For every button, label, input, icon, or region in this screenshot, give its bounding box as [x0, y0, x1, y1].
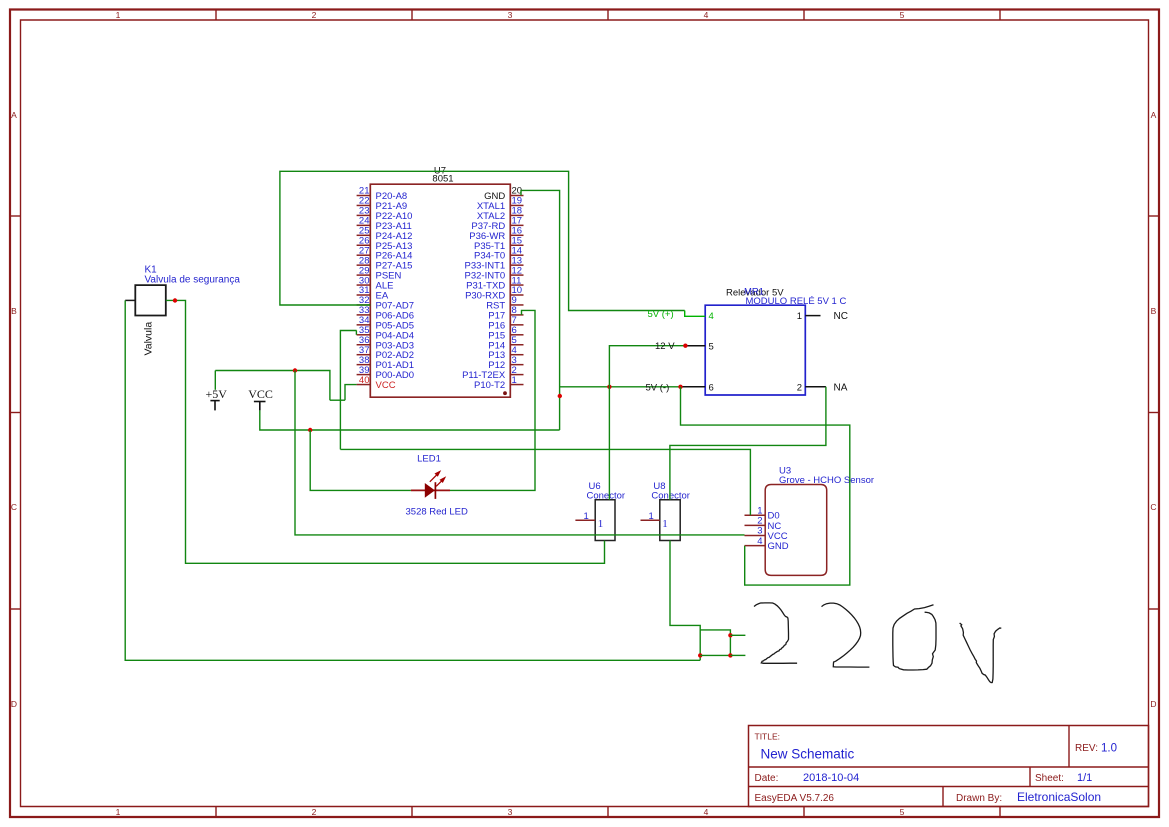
U7 pin 5 P14: [510, 344, 523, 346]
wire 12V from relay pin 5 to U6 top: [609, 346, 686, 500]
svg-text:5: 5: [900, 10, 905, 20]
svg-text:4: 4: [757, 536, 762, 547]
wire U8 bottom to 220V node: [670, 541, 700, 661]
U7 pin 33 P06-AD6: [357, 314, 371, 316]
U3 pin 2 NC: [745, 524, 766, 526]
U7 pin 28 P27-A15: [357, 264, 371, 266]
svg-text:+5V: +5V: [206, 387, 228, 401]
wire VCC flag to GND rail: [260, 410, 560, 430]
U3 pin 1 D0: [745, 514, 766, 516]
svg-text:1: 1: [649, 511, 654, 522]
node relay pin 5: [683, 344, 687, 348]
U7 pin 24 P23-A11: [357, 224, 371, 226]
U7 pin 13 P33-INT1: [510, 264, 523, 266]
svg-text:NA: NA: [834, 382, 848, 393]
wire U7 pin35 branch: [340, 331, 356, 401]
svg-text:12 V: 12 V: [655, 341, 675, 352]
U7 pin 37 P02-AD2: [357, 354, 371, 356]
U7 pin 1 P10-T2: [510, 384, 523, 386]
svg-text:A: A: [11, 110, 17, 120]
svg-text:TITLE:: TITLE:: [755, 732, 781, 742]
node VCC rail to LED: [308, 428, 312, 432]
svg-text:Grove - HCHO Sensor: Grove - HCHO Sensor: [779, 475, 874, 486]
svg-text:6: 6: [709, 382, 714, 393]
svg-text:1: 1: [116, 807, 121, 817]
+5V power flag: [214, 371, 216, 390]
node 12V crossing: [607, 385, 611, 389]
U6 pin 1: [575, 519, 595, 521]
U7 pin 32 P07-AD7: [357, 304, 371, 306]
svg-text:B: B: [1151, 306, 1157, 316]
wire 220V stub bottom: [730, 654, 745, 656]
wire U3 pin4 GND loop to 5V(-): [681, 387, 850, 585]
svg-text:LED1: LED1: [417, 454, 441, 465]
U7 pin 4 P13: [510, 354, 523, 356]
handwritten 220v annotation: digit 2: [822, 603, 870, 667]
svg-text:1/1: 1/1: [1077, 772, 1092, 784]
svg-text:2: 2: [312, 807, 317, 817]
relay module MR1 MODULO RELE 5V 1 C: [705, 305, 805, 395]
svg-text:1: 1: [584, 511, 589, 522]
svg-text:5: 5: [709, 341, 714, 352]
wire long rail to U3 pin1 D0: [340, 449, 750, 515]
node 220V stub top: [728, 633, 732, 637]
U7 pin 38 P01-AD1: [357, 364, 371, 366]
svg-text:B: B: [11, 306, 17, 316]
U8 pin 1: [641, 519, 660, 521]
node 220V left: [698, 653, 702, 657]
wire 220V stub top: [730, 634, 745, 636]
U7 pin 22 P21-A9: [357, 204, 371, 206]
relay K1 Valvula de seguranca: [135, 285, 166, 315]
svg-text:A: A: [1151, 110, 1157, 120]
svg-text:1: 1: [116, 10, 121, 20]
svg-text:C: C: [11, 502, 17, 512]
U7 pin 30 ALE: [357, 284, 371, 286]
svg-text:3: 3: [508, 807, 513, 817]
svg-text:1: 1: [797, 311, 802, 322]
svg-text:4: 4: [704, 807, 709, 817]
svg-text:NC: NC: [834, 311, 848, 322]
wire U7 pin40 VCC branch: [345, 385, 357, 401]
wire LED anode branch: [310, 430, 411, 490]
node 5V(-) branch: [678, 385, 682, 389]
svg-text:D: D: [1150, 699, 1156, 709]
svg-text:1.0: 1.0: [1101, 743, 1117, 755]
node K1 right pin: [173, 298, 177, 302]
U7 pin 16 P36-WR: [510, 234, 523, 236]
wire down to sensor row: [339, 400, 341, 449]
U3 pin 4 GND: [745, 545, 766, 547]
svg-text:C: C: [1150, 502, 1156, 512]
svg-text:40: 40: [359, 375, 370, 386]
svg-text:1: 1: [662, 518, 668, 530]
svg-text:MODULO RELÉ 5V 1 C: MODULO RELÉ 5V 1 C: [746, 296, 847, 307]
U7 pin 3 P12: [510, 364, 523, 366]
U7 pin 2 P11-T2EX: [510, 374, 523, 376]
node +5V rail branch: [293, 368, 297, 372]
title block: [749, 726, 1149, 807]
svg-text:2: 2: [797, 382, 802, 393]
svg-text:3: 3: [508, 10, 513, 20]
svg-text:1: 1: [512, 375, 517, 386]
connector U8: [660, 500, 680, 541]
U7 pin 34 P05-AD5: [357, 324, 371, 326]
svg-text:Sheet:: Sheet:: [1035, 773, 1064, 784]
sensor U3 Grove - HCHO Sensor: [765, 485, 827, 576]
U7 pin 10 P30-RXD: [510, 294, 523, 296]
U7 pin 35 P04-AD4: [357, 334, 371, 336]
wire 220V loop: [700, 630, 730, 656]
U7 pin 8 P17: [510, 314, 523, 316]
svg-text:1: 1: [598, 518, 604, 530]
svg-text:GND: GND: [768, 541, 789, 552]
wire K1 right down to U6 bottom: [166, 300, 605, 563]
svg-text:2: 2: [312, 10, 317, 20]
U7 pin 20 GND: [510, 195, 523, 197]
svg-text:Valvula de segurança: Valvula de segurança: [145, 275, 241, 286]
wire 5V(-) from GND rail to relay pin 6: [560, 386, 681, 388]
svg-text:5: 5: [900, 807, 905, 817]
handwritten 220v annotation: letter v: [960, 623, 1002, 683]
wire +5V rail horizontal: [215, 371, 330, 401]
svg-text:VCC: VCC: [248, 387, 273, 401]
U7 pin 23 P22-A10: [357, 214, 371, 216]
handwritten 220v annotation: digit 0: [893, 605, 936, 670]
U7 pin 11 P31-TXD: [510, 284, 523, 286]
node 220V stub bottom: [728, 653, 732, 657]
svg-text:3528 Red LED: 3528 Red LED: [406, 507, 468, 518]
connector U6: [595, 500, 615, 541]
op-amp U7 8051 microcontroller: [370, 184, 510, 397]
U7 pin 27 P26-A14: [357, 254, 371, 256]
U7 pin 29 PSEN: [357, 274, 371, 276]
U7 pin 31 EA: [357, 294, 371, 296]
U7 pin 9 RST: [510, 304, 523, 306]
U7 pin 19 XTAL1: [510, 204, 523, 206]
svg-text:EletronicaSolon: EletronicaSolon: [1017, 790, 1101, 804]
svg-text:8051: 8051: [432, 174, 453, 185]
svg-text:Date:: Date:: [755, 773, 779, 784]
U7 pin-1 marker dot: [503, 391, 507, 395]
svg-text:D: D: [11, 699, 17, 709]
svg-text:Valvula: Valvula: [143, 322, 155, 356]
svg-text:Conector: Conector: [651, 491, 690, 502]
U7 pin 40 VCC: [357, 384, 371, 386]
svg-text:5V (-): 5V (-): [646, 382, 670, 393]
svg-text:2018-10-04: 2018-10-04: [803, 772, 859, 784]
U7 pin 7 P16: [510, 324, 523, 326]
wire U7 pin32 loop to relay pin 4, 5V(+) net: [280, 171, 685, 310]
U7 pin 14 P34-T0: [510, 254, 523, 256]
U7 pin 36 P03-AD3: [357, 344, 371, 346]
U7 pin 21 P20-A8: [357, 195, 371, 197]
wire U7 pin20 GND down to VCC rail: [521, 190, 560, 430]
svg-text:Drawn By:: Drawn By:: [956, 793, 1002, 804]
wire VCC net through connectors to U3 pin3: [295, 371, 745, 535]
svg-text:5V (+): 5V (+): [648, 309, 674, 320]
wire relay pin 2 NA down to U8 top: [670, 387, 826, 500]
wire joint at 400: [330, 399, 345, 401]
svg-text:4: 4: [704, 10, 709, 20]
svg-text:REV:: REV:: [1075, 743, 1098, 754]
wire K1 left to bottom 220V rail: [125, 300, 700, 660]
node GND rail junction: [558, 394, 562, 398]
U7 pin 15 P35-T1: [510, 244, 523, 246]
svg-text:P10-T2: P10-T2: [474, 380, 505, 391]
svg-text:Conector: Conector: [587, 491, 626, 502]
svg-text:VCC: VCC: [376, 380, 396, 391]
wire LED cathode to U7 pin8 P17: [450, 310, 535, 490]
svg-text:New Schematic: New Schematic: [761, 747, 855, 762]
U7 pin 17 P37-RD: [510, 224, 523, 226]
U7 pin 12 P32-INT0: [510, 274, 523, 276]
U7 pin 26 P25-A13: [357, 244, 371, 246]
svg-text:4: 4: [709, 311, 714, 322]
U7 pin 6 P15: [510, 334, 523, 336]
U3 pin 3 VCC: [745, 535, 766, 537]
U7 pin 39 P00-AD0: [357, 374, 371, 376]
svg-text:EasyEDA V5.7.26: EasyEDA V5.7.26: [755, 793, 835, 804]
U7 pin 18 XTAL2: [510, 214, 523, 216]
U7 pin 25 P24-A12: [357, 234, 371, 236]
handwritten 220v annotation: digit 2: [754, 603, 797, 663]
